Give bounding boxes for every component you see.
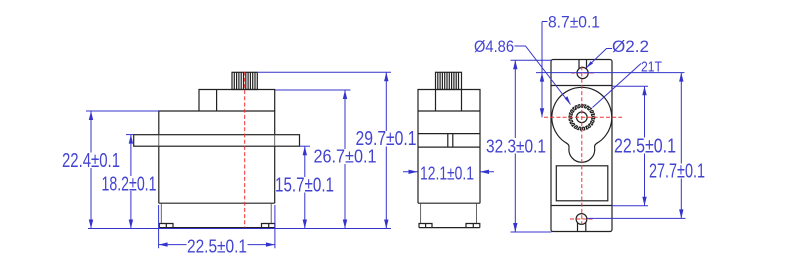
side view: body — [418, 111, 480, 203]
dimension baseline — [88, 228, 391, 230]
front view: upper body — [159, 111, 275, 135]
dim 26.7 line — [344, 90, 346, 229]
top view: gearbox pear outline — [552, 87, 612, 162]
dim 15.7 arrows — [303, 146, 307, 155]
svg-text:15.7±0.1: 15.7±0.1 — [275, 175, 334, 197]
dim 29.7 line — [385, 72, 387, 228]
svg-text:8.7±0.1: 8.7±0.1 — [548, 13, 600, 32]
top hole extension line — [536, 72, 685, 74]
dim 32.3 arrows — [513, 60, 517, 69]
front view: left foot — [159, 224, 173, 228]
front view: center line — [244, 72, 246, 228]
top view: label recess rectangle — [556, 166, 608, 201]
dim 29.7 arrows — [384, 72, 388, 81]
dim 22.4 arrows — [89, 111, 93, 120]
dim 22.5 extension lines — [159, 205, 275, 248]
front view: gearbox cap — [199, 90, 275, 112]
top view: spline center hole — [577, 112, 588, 123]
side view: right foot — [466, 224, 480, 228]
dim 26.7 extension line — [275, 89, 351, 91]
dim 32.3 line — [514, 60, 516, 232]
svg-text:29.7±0.1: 29.7±0.1 — [356, 128, 417, 150]
top view: flange tab lines — [551, 86, 612, 206]
dim 27.7 extension line — [587, 217, 686, 219]
side view: flange band — [418, 134, 480, 148]
front view: output spline gear — [232, 72, 257, 89]
svg-text:18.2±0.1: 18.2±0.1 — [102, 174, 157, 196]
svg-text:27.7±0.1: 27.7±0.1 — [649, 161, 705, 183]
dim 18.2 line — [130, 135, 132, 229]
top view: bottom hole center line — [570, 218, 593, 220]
dim 22.5R arrows — [642, 86, 646, 95]
dia 4.86 leader — [515, 46, 571, 105]
side view: base sides — [421, 203, 477, 223]
dim 26.7 arrows — [343, 90, 347, 99]
dim 22.5R extension lines — [612, 86, 648, 206]
dim 15.7 extension line — [300, 145, 311, 147]
top view: top mounting hole — [577, 67, 588, 78]
dim 22.4 extension line — [86, 110, 159, 112]
dim 22.5 line — [159, 244, 275, 246]
svg-text:32.3±0.1: 32.3±0.1 — [486, 137, 546, 157]
top view: spline gear teeth ring — [569, 104, 595, 130]
top view: bottom mounting hole — [576, 214, 587, 225]
front view: base sides — [161, 203, 271, 223]
front view: body inner line — [159, 202, 275, 204]
dim 32.3 extension lines — [511, 60, 552, 232]
side view: gearbox cap — [418, 90, 480, 112]
front view: bottom edge — [159, 227, 275, 229]
dim 12.1 arrows — [409, 170, 418, 174]
front view: hidden body edges through flange — [159, 135, 275, 147]
dim 18.2 extension line — [126, 134, 134, 136]
svg-text:21T: 21T — [641, 59, 662, 76]
dim 22.5 arrows — [159, 242, 168, 246]
svg-text:Ø2.2: Ø2.2 — [612, 37, 649, 56]
dim 27.7 arrows — [679, 73, 683, 82]
svg-text:22.5±0.1: 22.5±0.1 — [614, 136, 676, 158]
dim 22.5R line — [644, 86, 646, 206]
dia 2.2 leader — [586, 49, 612, 68]
top view: top hole center line — [571, 72, 594, 74]
dim 27.7 line — [680, 73, 682, 219]
dim 29.7 extension line — [258, 71, 392, 73]
front view: lower body sides — [159, 146, 275, 203]
21T leader — [593, 64, 642, 108]
front view: mounting flange — [134, 135, 300, 147]
side view: left foot — [419, 224, 432, 228]
front view: right foot — [262, 224, 275, 228]
dim 22.4 line — [90, 111, 92, 229]
side view: body inner line — [418, 202, 480, 204]
dim 8.7 arrows — [540, 73, 544, 82]
dim 18.2 arrows — [129, 135, 133, 144]
top view: vertical center line — [581, 66, 583, 224]
top view: horizontal center line — [544, 116, 622, 118]
top view: top mounting slot — [579, 60, 587, 69]
side view: output spline gear — [436, 72, 462, 89]
svg-text:12.1±0.1: 12.1±0.1 — [420, 164, 474, 184]
top view: bottom mounting slot — [578, 223, 586, 232]
dim 12.1 arrow lines — [403, 171, 494, 173]
svg-text:22.5±0.1: 22.5±0.1 — [187, 237, 247, 257]
svg-text:22.4±0.1: 22.4±0.1 — [62, 150, 120, 172]
dim 15.7 line — [304, 146, 306, 228]
side view: bottom edge — [419, 227, 480, 229]
top view: outer case rectangle — [551, 60, 612, 232]
svg-text:Ø4.86: Ø4.86 — [474, 37, 514, 56]
dim 8.7 line — [542, 22, 548, 118]
